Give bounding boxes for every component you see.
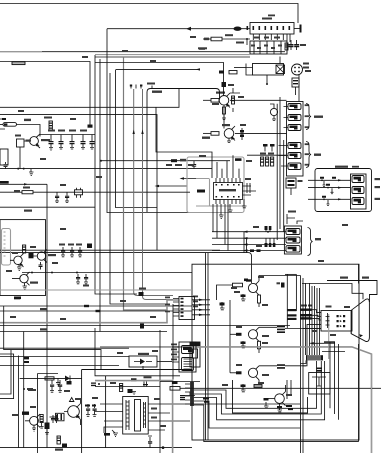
jack audio in L — [288, 115, 301, 121]
component marks left of loops — [203, 398, 209, 403]
label bus 2 — [199, 48, 205, 50]
brace AV in — [306, 104, 311, 130]
parallel wires inside left — [205, 253, 207, 440]
inner box around heater circuit — [233, 380, 308, 413]
vertical x160 — [159, 330, 161, 453]
antenna line resistor R120 — [0, 187, 190, 194]
collector coil LB — [277, 364, 306, 368]
wire route v2 — [110, 73, 167, 304]
node T2 — [51, 272, 53, 274]
resistor bars crt 2 — [287, 309, 297, 320]
cap on wire — [139, 288, 147, 329]
resistor R905 — [203, 34, 250, 43]
brace video out — [308, 228, 313, 256]
capacitor C904 — [294, 40, 299, 50]
wires into regulator — [0, 347, 129, 349]
anode arrow — [360, 334, 364, 337]
wire gray y290 — [0, 289, 192, 291]
via pad — [88, 125, 93, 128]
speaker jack 1 — [352, 176, 364, 183]
component cluster box under P901 — [250, 41, 287, 54]
wire diode drop — [223, 87, 225, 96]
caps on 192 wire — [55, 188, 83, 203]
audio rows — [316, 177, 351, 206]
wire reg out — [157, 361, 172, 363]
wire nest 3 — [18, 356, 20, 448]
node T3 — [76, 272, 78, 274]
caps near Q461 — [85, 404, 97, 416]
ribbon connector to CRT — [306, 355, 323, 360]
wire top rail to connector P901 — [0, 4, 298, 24]
resistor R210 above Q202 — [219, 71, 268, 86]
jack audio out R — [288, 163, 301, 170]
wire crt board b — [207, 253, 209, 440]
IC pin wires down to band — [213, 204, 228, 251]
label scatter — [6, 36, 350, 427]
thermistor TH901 — [292, 75, 299, 102]
electrolytic C115 — [29, 253, 34, 258]
resistor R111 vertical — [23, 245, 26, 253]
brace AV out — [306, 142, 311, 168]
wire y207 — [0, 207, 95, 212]
wire y325 — [0, 325, 290, 327]
crt neck edge — [350, 310, 352, 333]
speaker jack inner rect — [351, 174, 367, 209]
spark gap box below socket — [301, 352, 346, 395]
pad left edge — [2, 118, 6, 120]
label tick y311 — [96, 310, 101, 312]
wire AC input — [107, 28, 250, 30]
regulator box — [129, 353, 157, 369]
plug terminal right of P901 — [294, 25, 302, 33]
label neck 1 — [340, 277, 348, 279]
speaker jack 2 — [352, 187, 364, 194]
transistor QR red amp — [217, 276, 301, 308]
node junction — [246, 38, 248, 40]
right side verticals near funnel — [358, 264, 360, 283]
vertical wire bundle to socket — [301, 276, 320, 453]
caps below y272 wire — [76, 274, 89, 287]
label below tuner — [14, 297, 20, 300]
connector P901 — [250, 15, 294, 35]
wire — [246, 39, 248, 45]
wire y272.5 — [22, 272, 192, 274]
nested corner wires bottom left — [4, 306, 101, 370]
caps right of tuner — [59, 244, 92, 257]
CRT drive resistors — [300, 309, 312, 320]
inner box left — [105, 376, 107, 448]
stub arrows into shield — [155, 177, 197, 187]
label Q461 — [75, 398, 82, 400]
resistor R203 vertical — [44, 117, 52, 131]
RGB input arrows — [192, 296, 210, 317]
wire vertical pair b — [279, 97, 281, 229]
wire hook drop c — [295, 274, 297, 311]
degauss coil plug circle — [292, 63, 310, 76]
grounds bottom — [112, 430, 118, 437]
wire bus V3 — [107, 29, 200, 213]
wires y294-y331 routing — [95, 183, 137, 294]
jack audio in R — [288, 125, 301, 131]
jack video out — [288, 143, 301, 149]
gray return wire — [100, 347, 372, 453]
gray right margin line — [371, 354, 373, 453]
CRT socket box — [321, 306, 352, 360]
rounded wire corner to RGB — [0, 253, 252, 283]
Q203 — [202, 124, 287, 143]
resistor R101 outline — [12, 62, 25, 65]
FBT wires right — [148, 404, 300, 430]
cap C210 + ground below IC — [219, 199, 247, 219]
transistor QG green amp — [230, 327, 277, 353]
wire bus gray — [95, 54, 250, 56]
long wire y155 — [247, 154, 287, 156]
label R crt — [301, 305, 307, 307]
wire reg in 3 — [0, 365, 119, 367]
detector coil T201 — [270, 104, 278, 121]
label on board edge — [246, 279, 251, 281]
label bus — [198, 47, 207, 49]
marks inside power box — [91, 383, 100, 387]
collector coil LG — [277, 326, 321, 333]
IC right wires — [243, 186, 257, 195]
wire reg in 2 — [0, 356, 129, 358]
connector CN401 mid — [171, 342, 196, 372]
wire degauss — [234, 67, 246, 69]
vif transistor Q102 — [30, 249, 56, 262]
wire bus V4 — [116, 70, 158, 208]
ground on age line — [29, 169, 34, 176]
wire abl — [95, 63, 224, 83]
vertical bus wires center-top — [94, 55, 96, 183]
long wire y160.7 — [101, 160, 230, 162]
label tick y306 — [84, 305, 89, 307]
diode pair D201 — [240, 128, 244, 140]
jack stub wires — [279, 107, 289, 167]
nested U wires bottom right — [286, 380, 288, 399]
electrolytic C462 — [45, 423, 50, 435]
hook wires above jack strip 2 — [287, 214, 303, 224]
wires degauss — [246, 64, 253, 76]
IC201 chroma IC — [214, 178, 243, 204]
wire feed stub — [38, 373, 59, 375]
wire band to CRT board — [212, 231, 286, 254]
wire nest 1 — [0, 354, 14, 399]
label if box — [152, 91, 162, 93]
right vertical pair — [276, 104, 278, 240]
node T1 — [31, 272, 33, 274]
horizontal output section above FBT — [95, 376, 160, 394]
wire chroma bus — [0, 249, 220, 251]
power box left edge — [81, 370, 83, 453]
wire from if to ic — [156, 107, 212, 178]
wire hook drop a — [285, 273, 296, 275]
gray power return — [95, 381, 173, 453]
arrow abl — [196, 68, 201, 70]
label on gray box — [235, 158, 242, 161]
caps pair C463 — [51, 415, 59, 423]
wire nest 2 — [0, 350, 11, 394]
jack video in — [288, 104, 301, 110]
wires heading right from center — [116, 68, 201, 70]
capacitor marks on chroma bus — [250, 249, 261, 252]
transistor QB blue amp — [230, 366, 277, 384]
FBT wires left — [95, 404, 123, 436]
left edge stubs — [0, 119, 5, 129]
xtal X201 — [245, 178, 251, 193]
heater transistor Q inner — [266, 385, 286, 412]
label hook — [288, 211, 296, 213]
AV switch box — [286, 178, 303, 195]
gray segment on bus — [0, 51, 42, 53]
label C352 — [277, 282, 281, 284]
rounded signal box top-center — [147, 89, 220, 213]
wire bus gnd — [95, 56, 250, 58]
long vertical x47 — [46, 184, 48, 447]
power box bottom — [82, 369, 192, 371]
SAW filter Z201 — [15, 135, 31, 169]
wire left drop — [0, 62, 90, 127]
b+ line with diode — [20, 376, 82, 391]
transistor Q201 — [24, 134, 50, 148]
label left of IC — [197, 190, 205, 193]
jack audio out L — [288, 153, 301, 159]
vif transistor Q101 — [10, 254, 24, 268]
wire nest 4 — [23, 332, 25, 448]
diode D902 — [222, 82, 227, 87]
vertical x167 — [172, 304, 174, 380]
box edge corner — [95, 328, 106, 376]
neck board inner box — [327, 281, 377, 303]
drive transistor Q460 — [22, 412, 41, 432]
jack pin labels — [305, 104, 310, 165]
capacitor C352 — [281, 283, 285, 288]
jack strip 2 video out — [284, 226, 301, 254]
input stubs audio box — [308, 180, 316, 199]
marks in nested area — [286, 405, 293, 410]
socket drop wires — [330, 342, 339, 420]
grounds — [49, 148, 94, 151]
speaker jack 3 — [352, 198, 364, 205]
label D902 — [228, 84, 234, 86]
resistors on CRT wires — [265, 226, 276, 247]
wire vertical pair c — [283, 140, 285, 232]
label AV out — [314, 154, 321, 156]
label y331 — [40, 328, 47, 330]
node J2 — [17, 168, 19, 170]
IC pin wires up — [217, 155, 239, 178]
ground Q101 — [17, 265, 22, 271]
label video out — [315, 238, 321, 240]
focus arrow — [309, 341, 335, 344]
emitter resistor R204 — [222, 107, 226, 121]
socket pin contacts — [337, 315, 346, 327]
label R crt 2 — [308, 305, 312, 307]
capacitor C440 — [24, 357, 29, 363]
wire gray heater — [0, 300, 179, 323]
wire y306 — [0, 305, 192, 307]
base feed vertical — [229, 300, 231, 373]
bias network row — [40, 130, 95, 151]
CRT funnel — [351, 299, 369, 342]
wire y107 — [0, 89, 179, 107]
parts near heater Q — [241, 384, 269, 408]
label y311 — [40, 308, 47, 310]
collector load parts — [224, 88, 287, 129]
caps above power box top — [50, 380, 72, 392]
wire crt board right edge low — [358, 344, 360, 442]
gray IC shield box — [187, 157, 244, 213]
wire y184 label — [0, 181, 47, 186]
wire y311 — [0, 310, 192, 312]
label AV in — [314, 116, 323, 118]
long wire y168.6 — [0, 168, 212, 170]
shield can left edge — [0, 149, 8, 165]
AV jack panel J1 — [287, 102, 304, 177]
warning triangle — [70, 398, 74, 402]
node J1 — [100, 160, 102, 162]
wire hook drop b — [286, 274, 288, 328]
FBT flyback transformer T471 — [123, 397, 149, 435]
label neck 2 — [362, 277, 369, 279]
capacitor C905 polarized — [234, 27, 242, 31]
degauss relay box — [253, 64, 285, 76]
small transformer box left — [190, 342, 200, 367]
wires into socket — [303, 310, 321, 366]
wire stub b — [290, 380, 292, 396]
components below FBT left — [55, 436, 63, 451]
node J3 — [23, 168, 25, 170]
center vertical bus pair with arrows — [133, 89, 174, 300]
audio out box (speaker block) — [315, 166, 372, 212]
H-drive transformer T461 — [50, 413, 65, 421]
CRT board outer box — [192, 264, 359, 440]
wire y331 — [0, 331, 167, 333]
cap C116 — [39, 262, 43, 270]
components on y160 wire — [166, 159, 196, 169]
pin labels right of audio box — [375, 178, 381, 200]
arrow on wire — [186, 27, 191, 31]
wires below connector P901 — [287, 34, 290, 50]
wire y114 — [0, 115, 157, 251]
wire bus V5 — [124, 57, 168, 310]
resistor R101 gray body — [12, 62, 25, 65]
vif transistor Q103 — [12, 272, 38, 285]
capacitor C903 — [289, 40, 294, 50]
vertical feed wire — [37, 374, 39, 453]
wire bus V2 — [99, 59, 101, 332]
RF input resistor R201 — [0, 119, 40, 137]
wire relay — [279, 57, 281, 64]
fan-out wires to CRT board — [194, 361, 359, 442]
long vertical x25 — [28, 389, 36, 391]
wire neck feed — [302, 284, 363, 300]
bottom rail — [0, 436, 192, 449]
resistor R908 — [285, 43, 288, 50]
H-out transistor Q461 — [64, 398, 81, 425]
tuner box — [0, 220, 46, 300]
connector pins strip x190 — [185, 382, 194, 406]
component hangers on box top — [130, 83, 155, 89]
capacitor C120 left edge — [4, 162, 8, 169]
wire bus B+ — [0, 51, 285, 53]
resistor network mid-right — [260, 144, 275, 166]
pin header mid-right — [165, 297, 195, 320]
ground Q103 — [23, 283, 28, 290]
clamp diode + gnd — [220, 302, 225, 310]
connector P901 pin stubs — [253, 34, 283, 40]
connector P901 pins — [247, 26, 291, 30]
resistor R462 striped — [40, 415, 44, 429]
IF amp Q202 — [203, 92, 230, 108]
parts right of FBT — [160, 381, 381, 400]
inner box top — [106, 375, 180, 377]
